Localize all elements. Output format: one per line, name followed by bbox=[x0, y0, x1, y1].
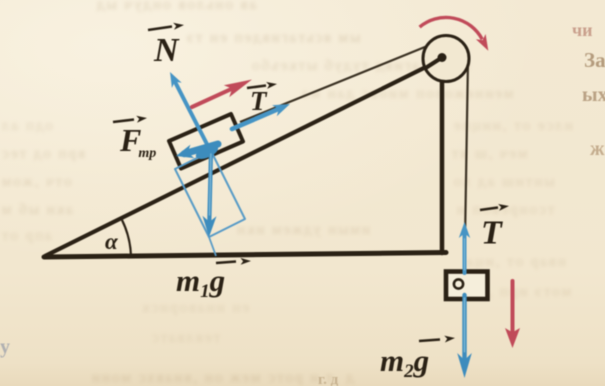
angle arc at vertex bbox=[122, 220, 131, 256]
hook circle on mass bbox=[454, 279, 463, 288]
pulley axle dot bbox=[438, 53, 447, 62]
incline base (horizontal ground line) bbox=[44, 253, 446, 258]
friction force F_tr arrow bbox=[176, 144, 218, 158]
svg-text:T: T bbox=[481, 215, 503, 252]
vector bar over upper T bbox=[247, 82, 277, 89]
vector bar over right T bbox=[480, 204, 509, 211]
blue junction blob where force arrows meet bbox=[194, 142, 220, 162]
normal force N arrow bbox=[170, 72, 211, 152]
svg-text:m2g: m2g bbox=[380, 343, 429, 382]
string from block to pulley bbox=[240, 45, 431, 123]
hypotenuse continuation to pulley axle bbox=[424, 58, 442, 70]
tension T arrow on block bbox=[232, 104, 290, 129]
svg-text:α: α bbox=[105, 229, 119, 254]
weight m2g arrow bbox=[457, 295, 472, 378]
block m1 on incline bbox=[169, 114, 243, 169]
vector bar over N bbox=[148, 23, 184, 30]
red arrow: block motion direction up the incline bbox=[192, 80, 252, 108]
pulley wheel bbox=[423, 36, 469, 82]
decomposition rectangle of weight m1g into components bbox=[175, 151, 245, 237]
hanging mass m2 bbox=[446, 272, 488, 300]
weight m1g arrow bbox=[203, 151, 217, 237]
vector bar over F_tr bbox=[113, 116, 147, 123]
red curved arrow: pulley rotation direction bbox=[420, 17, 489, 50]
incline vertical side bbox=[440, 60, 445, 253]
svg-text:Fтр: Fтр bbox=[119, 122, 156, 161]
svg-text:T: T bbox=[250, 86, 268, 116]
pen overshoot at rectangle corner bbox=[209, 237, 216, 256]
red arrow: mass motion direction down bbox=[505, 281, 520, 348]
string vertical from pulley to hanging mass bbox=[465, 59, 469, 271]
svg-text:m1g: m1g bbox=[176, 263, 225, 302]
tension T arrow on hanging mass bbox=[459, 222, 470, 273]
vector bar over g of m2g bbox=[419, 336, 455, 343]
vector bar over g of m1g bbox=[216, 258, 251, 265]
incline hypotenuse (slope surface) bbox=[45, 60, 440, 256]
svg-text:N: N bbox=[153, 32, 180, 69]
